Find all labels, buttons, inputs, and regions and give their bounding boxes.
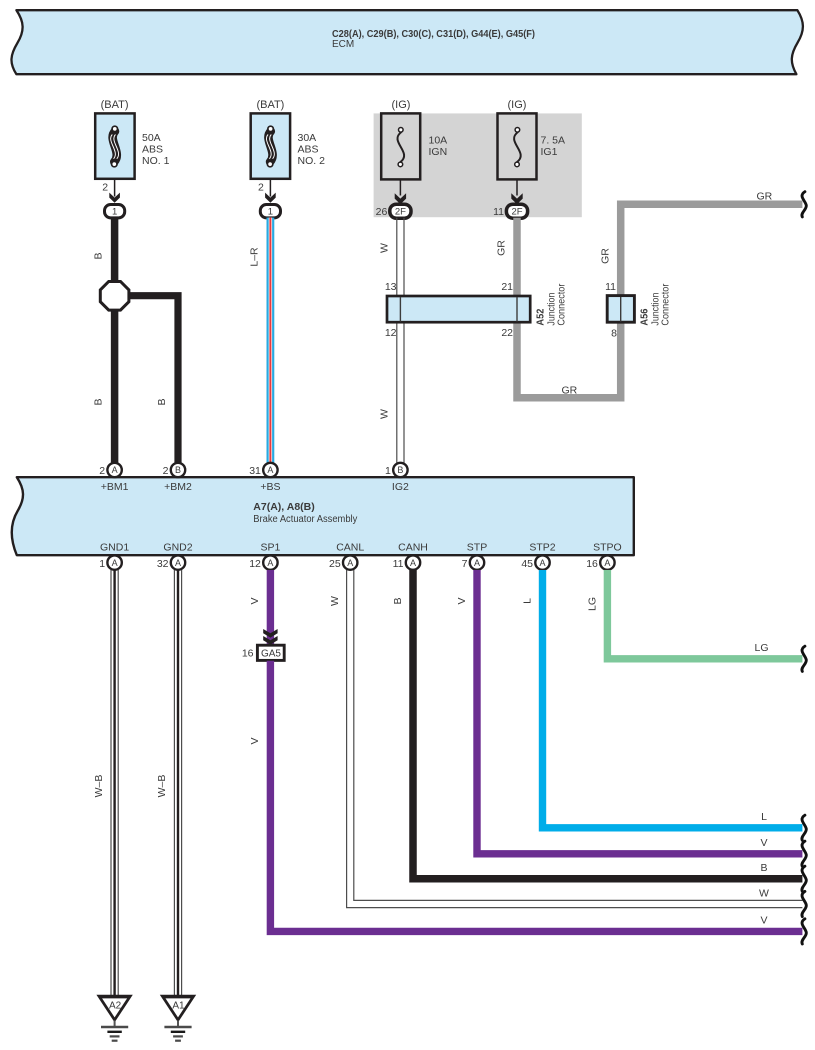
svg-text:STPO: STPO [593,541,622,553]
svg-text:A: A [112,558,118,568]
svg-text:(IG): (IG) [392,99,411,111]
svg-text:A: A [267,465,273,475]
svg-text:25: 25 [329,558,341,570]
svg-text:W: W [379,409,391,419]
wire label B lower-left [93,398,105,405]
pin number 1 at GND1 [99,558,105,570]
wire label W lower [379,409,391,419]
junction connector A56 box [607,296,634,323]
wire fuse IG1 to connector [516,180,518,196]
wire B CANH to right edge [413,570,802,879]
pin number 11 at CANH [393,558,404,570]
svg-text:B: B [760,862,767,874]
svg-text:W–B: W–B [93,775,105,798]
connector GA5 box [257,645,284,660]
svg-text:A: A [604,558,610,568]
pin 26 label [376,206,388,218]
svg-text:(BAT): (BAT) [256,99,284,111]
svg-text:V: V [760,837,767,849]
svg-text:16: 16 [242,648,254,660]
pin 31(A) +BS terminal [263,463,277,477]
engine room junction block shading [374,113,582,217]
svg-text:GR: GR [496,240,508,256]
connector pin 2F (IGN) [390,204,411,218]
pin number 1 at IG2 [385,465,391,477]
svg-text:11: 11 [393,558,404,570]
pin 12(A) SP1 terminal [263,555,277,569]
wire label W upper [379,243,391,253]
arrow into connector 2F (IGN) [395,193,406,204]
wire V SP1 upper [267,570,274,645]
A56 designator [639,308,651,325]
fuse IGN symbol [397,128,404,167]
wire V STP to right edge [477,570,802,854]
svg-text:LG: LG [754,642,768,654]
pin number 2 at +BM1 [99,465,105,477]
wire label B lower-right [156,398,168,405]
svg-text:7. 5A: 7. 5A [541,135,566,147]
wire GR fuse IG1 to A52 pin 21 [513,218,521,295]
ground A1 [160,995,196,1041]
svg-text:A: A [410,558,416,568]
svg-text:W: W [379,243,391,253]
wire W-B GND1 to ground A2 [111,570,118,996]
pin number 45 at STP2 [521,558,533,570]
svg-text:V: V [249,597,261,604]
fuse ABS NO.1 fusible link symbol [111,126,119,167]
pin 2 label fuse2 [258,182,264,194]
wire label LG STPO [586,597,598,611]
svg-text:22: 22 [501,327,513,339]
pin number 12 at SP1 [249,558,261,570]
svg-text:ABS: ABS [298,144,319,156]
Brake Actuator Assembly band A7/A8 [12,477,634,555]
svg-text:NO. 1: NO. 1 [142,155,170,167]
svg-text:ABS: ABS [142,144,163,156]
wire label V STP right [760,837,767,849]
svg-text:IG1: IG1 [541,146,558,158]
svg-text:21: 21 [501,281,513,293]
svg-text:26: 26 [376,206,388,218]
wire label GR upper [496,240,508,256]
connector pin 2F (IG1) [506,204,527,218]
svg-text:11: 11 [493,206,504,218]
pin 2(A) +BM1 terminal [107,463,121,477]
net label IG2 [392,481,409,493]
net label CANH [398,541,428,553]
svg-text:1: 1 [385,465,391,477]
wire W fuse IGN to A52 pin 13 [397,218,404,295]
fuse IGN box [381,113,420,179]
wire break squiggle B CANH [802,866,806,891]
wire label L STP2 [521,598,533,604]
svg-text:A: A [175,558,181,568]
value label 30A ABS NO. 2 [298,132,326,167]
svg-text:10A: 10A [429,135,448,147]
svg-text:50A: 50A [142,132,161,144]
A52 designator [535,308,547,325]
wire label GR top right [757,191,773,203]
wire break squiggle LG STPO [802,646,806,671]
svg-text:L: L [761,811,767,823]
pin number 32 at GND2 [157,558,169,570]
pin 25(A) CANL terminal [343,555,357,569]
label (BAT) fuse2 [256,99,284,111]
fuse IG1 box [498,113,537,179]
A56 name Junction Connector [650,283,672,325]
svg-text:CANH: CANH [398,541,428,553]
connector pin 1 (fuse1) [105,205,125,218]
svg-text:7: 7 [462,558,468,570]
wire break squiggle V STP [802,841,806,866]
connector pin 1 (fuse2) [260,205,280,218]
svg-text:STP: STP [467,541,487,553]
net label SP1 [260,541,280,553]
svg-text:GND2: GND2 [163,541,192,553]
wire label B CANH right [760,862,767,874]
fuse ABS NO.2 box [251,113,290,178]
A52 pin 13 label [385,281,397,293]
svg-text:12: 12 [249,558,261,570]
svg-text:GR: GR [600,248,612,264]
svg-text:STP2: STP2 [529,541,555,553]
wire GR A56 pin 11 up-right to ECM side [621,204,803,296]
svg-text:2F: 2F [511,207,522,218]
svg-text:W: W [759,888,769,900]
arrow into connector 1 (fuse2) [265,193,276,203]
svg-text:+BM2: +BM2 [164,481,192,493]
wire label L STP2 right [761,811,767,823]
svg-text:B: B [93,398,105,405]
ground A2 [96,995,132,1041]
svg-text:A: A [267,558,273,568]
svg-text:A2: A2 [109,1000,122,1011]
pin 1(B) IG2 terminal [393,463,407,477]
svg-text:2: 2 [163,465,169,477]
svg-text:L: L [521,598,533,604]
svg-text:A: A [474,558,480,568]
svg-text:C28(A), C29(B), C30(C), C31(D): C28(A), C29(B), C30(C), C31(D), G44(E), … [332,28,535,40]
svg-text:IG2: IG2 [392,481,409,493]
wire B branch to +BM2 [127,296,178,464]
svg-text:LG: LG [586,597,598,611]
label Brake Actuator Assembly [253,514,357,525]
wire label V SP1 mid [249,737,261,744]
value label 10A IGN [429,135,448,159]
wire break squiggle L STP2 [802,815,806,840]
svg-text:A7(A), A8(B): A7(A), A8(B) [253,501,314,513]
wire B fuse1 down to junction [111,218,119,284]
wire label LG STPO right [754,642,768,654]
svg-text:V: V [760,915,767,927]
net label +BS [260,481,280,493]
wire fuse IGN to connector [399,180,401,196]
pin number 7 at STP [462,558,468,570]
fuse ABS NO.1 box [95,113,134,178]
svg-text:CANL: CANL [336,541,364,553]
svg-text:NO. 2: NO. 2 [298,155,326,167]
value label 50A ABS NO. 1 [142,132,170,167]
splice node octagon [100,282,129,311]
wire fuse2 to connector [269,179,271,197]
wire L-R fuse2 to +BS [267,218,275,465]
svg-text:11: 11 [605,281,616,293]
label (BAT) fuse1 [101,99,129,111]
net label STP2 [529,541,555,553]
wire label W-B right [156,775,168,798]
A52 name Junction Connector [546,283,568,325]
GA5 pin 16 label [242,648,254,660]
net label STPO [593,541,622,553]
label ECM [332,39,354,50]
svg-text:B: B [392,597,404,604]
svg-text:(IG): (IG) [508,99,527,111]
wire break squiggle GR [802,192,806,217]
wire label W-B left [93,775,105,798]
svg-text:Connector: Connector [556,283,568,325]
svg-text:(BAT): (BAT) [101,99,129,111]
net label GND1 [100,541,129,553]
pin number 2 at +BM2 [163,465,169,477]
arrow into connector 2F (IG1) [511,193,522,204]
svg-text:2: 2 [258,182,264,194]
pin 7(A) STP terminal [470,555,484,569]
svg-text:2F: 2F [395,207,406,218]
label C28(A), C29(B), C30(C), C31(D), G44(E), G45(F) [332,28,535,40]
label (IG) fuse IG1 [508,99,527,111]
svg-text:B: B [397,465,403,475]
svg-text:W–B: W–B [156,775,168,798]
svg-text:B: B [93,252,105,259]
svg-text:GND1: GND1 [100,541,129,553]
svg-text:GA5: GA5 [261,649,281,660]
svg-text:31: 31 [249,465,261,477]
pin 1(A) GND1 terminal [107,555,121,569]
A56 pin 8 label [611,327,617,339]
svg-text:GR: GR [757,191,773,203]
wire label L-R [249,247,261,267]
label GA5 [261,649,281,660]
svg-text:2: 2 [102,182,108,194]
net label GND2 [163,541,192,553]
svg-text:45: 45 [521,558,533,570]
pin 11(A) CANH terminal [406,555,420,569]
wire fuse1 to connector [114,179,116,197]
svg-text:B: B [175,465,181,475]
wire label B CANH [392,597,404,604]
wire W CANL to right edge [347,570,803,908]
value label 7. 5A IG1 [541,135,566,159]
wire label W CANL right [759,888,769,900]
connector GA5 chevrons [263,629,277,645]
svg-text:30A: 30A [298,132,317,144]
svg-text:+BS: +BS [260,481,280,493]
wire label V STP [456,597,468,604]
net label CANL [336,541,364,553]
wire label B upper [93,252,105,259]
svg-text:Connector: Connector [660,283,672,325]
svg-text:A: A [347,558,353,568]
label (IG) fuse IGN [392,99,411,111]
arrow into connector 1 (fuse1) [109,193,120,203]
svg-text:16: 16 [586,558,598,570]
svg-text:V: V [456,597,468,604]
wire W A52 pin 12 to IG2 [397,323,404,464]
svg-text:A1: A1 [172,1000,185,1011]
svg-text:32: 32 [157,558,169,570]
pin number 25 at CANL [329,558,341,570]
wire label V SP1 right [760,915,767,927]
svg-text:1: 1 [268,207,273,218]
pin 2(B) +BM2 terminal [171,463,185,477]
net label +BM2 [164,481,192,493]
ECM connector banner C28/C29/C30/C31/G44/G45 [11,10,802,74]
svg-text:V: V [249,737,261,744]
pin number 16 at STPO [586,558,598,570]
svg-text:Brake Actuator Assembly: Brake Actuator Assembly [253,514,357,525]
svg-text:2: 2 [99,465,105,477]
wire B junction down to +BM1 [111,308,119,464]
wire label W CANL [329,596,341,606]
pin 32(A) GND2 terminal [171,555,185,569]
A52 pin 22 label [501,327,513,339]
wire label GR lower horizontal [562,385,578,397]
fuse IG1 symbol [514,128,521,167]
A52 pin 21 label [501,281,513,293]
pin 16(A) STPO terminal [600,555,614,569]
wire LG STPO to right edge [607,570,802,659]
svg-text:13: 13 [385,281,397,293]
svg-text:W: W [329,596,341,606]
svg-text:12: 12 [385,327,397,339]
svg-text:A: A [112,465,118,475]
A56 pin 11 label [605,281,616,293]
pin number 31 at +BS [249,465,261,477]
svg-text:8: 8 [611,327,617,339]
svg-text:GR: GR [562,385,578,397]
wire V SP1 lower to right edge [270,661,802,932]
svg-text:SP1: SP1 [260,541,280,553]
pin 2 label fuse1 [102,182,108,194]
wire L STP2 to right edge [543,570,803,828]
wire GR A52 pin 22 down-right to A56 pin 8 [517,323,621,398]
net label STP [467,541,487,553]
wire break squiggle W CANL [802,891,806,916]
svg-text:L–R: L–R [249,247,261,267]
svg-text:IGN: IGN [429,146,448,158]
label A7(A), A8(B) [253,501,314,513]
wire label GR at A56 [600,248,612,264]
wire label V SP1 upper [249,597,261,604]
wire break squiggle V SP1 [802,919,806,944]
svg-text:A: A [539,558,545,568]
A52 pin 12 label [385,327,397,339]
svg-text:1: 1 [112,207,117,218]
pin 11 label [493,206,504,218]
net label +BM1 [101,481,129,493]
fuse ABS NO.2 fusible link symbol [266,126,274,167]
pin 45(A) STP2 terminal [535,555,549,569]
junction connector A52 box [387,296,530,322]
svg-text:ECM: ECM [332,39,354,50]
svg-text:1: 1 [99,558,105,570]
svg-text:B: B [156,398,168,405]
svg-text:+BM1: +BM1 [101,481,129,493]
wire W-B GND2 to ground A1 [174,570,181,996]
